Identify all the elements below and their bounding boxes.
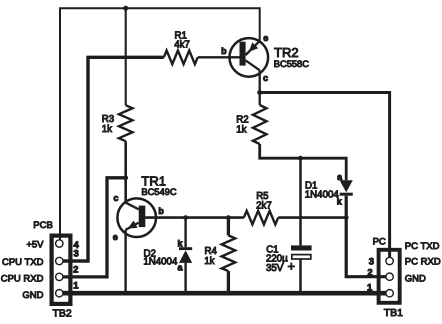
svg-text:1k: 1k bbox=[102, 124, 112, 135]
svg-text:35V: 35V bbox=[266, 263, 284, 274]
svg-text:BC549C: BC549C bbox=[141, 187, 176, 197]
wire R4 bottom stub bbox=[227, 271, 230, 293]
node TR2 collector junction bbox=[257, 90, 262, 95]
transistor TR2 bbox=[198, 38, 268, 92]
svg-text:+: + bbox=[288, 258, 296, 273]
svg-text:b: b bbox=[221, 46, 227, 56]
wire C1 bottom bbox=[299, 259, 302, 293]
svg-text:1N4004: 1N4004 bbox=[143, 257, 178, 268]
node junction R4 bbox=[226, 215, 231, 220]
svg-text:k: k bbox=[337, 197, 343, 207]
node junction top rail / R3 bbox=[123, 6, 128, 11]
svg-text:4k7: 4k7 bbox=[174, 40, 190, 51]
capacitor C1 bbox=[291, 245, 312, 259]
svg-text:1k: 1k bbox=[204, 256, 214, 267]
svg-text:b: b bbox=[158, 206, 164, 216]
svg-text:k: k bbox=[177, 239, 183, 249]
wire R3 top vertical bbox=[125, 8, 127, 105]
svg-text:GND: GND bbox=[22, 290, 43, 301]
svg-text:PC RXD: PC RXD bbox=[405, 256, 441, 267]
node junction C1 top bbox=[298, 156, 303, 161]
connector TB1 bbox=[379, 250, 400, 303]
wire D1 cathode down to TB1 pin 2 bbox=[346, 196, 389, 277]
svg-text:BC558C: BC558C bbox=[274, 59, 309, 69]
transistor TR1 bbox=[117, 198, 243, 293]
svg-text:CPU TXD: CPU TXD bbox=[2, 257, 44, 268]
svg-text:a: a bbox=[177, 263, 183, 273]
svg-text:1k: 1k bbox=[236, 125, 246, 136]
svg-text:e: e bbox=[263, 33, 268, 43]
diode D2 bbox=[179, 247, 192, 263]
svg-text:TB1: TB1 bbox=[384, 307, 403, 319]
wire C1 top bbox=[299, 158, 302, 245]
svg-text:e: e bbox=[113, 232, 118, 242]
wire ground bus bbox=[60, 291, 390, 296]
wire D2 top stub bbox=[184, 218, 186, 248]
svg-text:CPU RXD: CPU RXD bbox=[1, 273, 44, 284]
resistor R4 bbox=[222, 235, 236, 271]
svg-text:TB2: TB2 bbox=[52, 307, 71, 319]
wire R4 top stub bbox=[227, 218, 230, 236]
svg-text:PC TXD: PC TXD bbox=[405, 241, 440, 252]
svg-text:1: 1 bbox=[367, 282, 373, 293]
svg-text:2: 2 bbox=[73, 265, 78, 276]
svg-text:c: c bbox=[113, 193, 118, 203]
wire R5 right bbox=[278, 216, 346, 219]
wire CPU RXD: TB2 pin2 right, up, right to TR1 collector bbox=[60, 178, 126, 277]
wire R3 bottom to TR1 collector bbox=[124, 141, 127, 203]
svg-text:TR2: TR2 bbox=[274, 45, 299, 60]
resistor R3 bbox=[119, 105, 133, 141]
svg-text:GND: GND bbox=[405, 273, 426, 284]
svg-text:2k7: 2k7 bbox=[256, 201, 272, 212]
svg-text:1: 1 bbox=[73, 280, 79, 291]
wire R2 top stub bbox=[259, 93, 261, 106]
diode D1 bbox=[340, 180, 353, 196]
connector TB2 bbox=[52, 236, 71, 304]
svg-text:c: c bbox=[263, 73, 268, 83]
svg-text:PCB: PCB bbox=[33, 220, 53, 231]
wire +5V top rail with left drop to TB2 pin 4 bbox=[60, 8, 260, 243]
wire CPU TXD: TB2 pin3 right, up, right to R1 bbox=[60, 57, 164, 261]
svg-text:PC: PC bbox=[373, 237, 386, 248]
node junction collector / CPU RXD bbox=[123, 175, 128, 180]
wire D2 bottom stub bbox=[184, 263, 186, 293]
node junction R5 / D1 bbox=[344, 215, 349, 220]
svg-text:1N4004: 1N4004 bbox=[305, 189, 340, 200]
svg-text:2: 2 bbox=[367, 267, 372, 278]
resistor R5 bbox=[244, 211, 278, 225]
resistor R1 bbox=[164, 51, 198, 65]
svg-text:3: 3 bbox=[74, 248, 79, 259]
node junction D2 bbox=[183, 215, 188, 220]
svg-text:+5V: +5V bbox=[26, 240, 44, 251]
svg-text:3: 3 bbox=[369, 256, 374, 267]
wire TR2 collector rail to TB1 pin 3 bbox=[260, 93, 390, 262]
resistor R2 bbox=[253, 105, 267, 144]
wire R2 bottom to D1 anode bbox=[260, 144, 347, 180]
